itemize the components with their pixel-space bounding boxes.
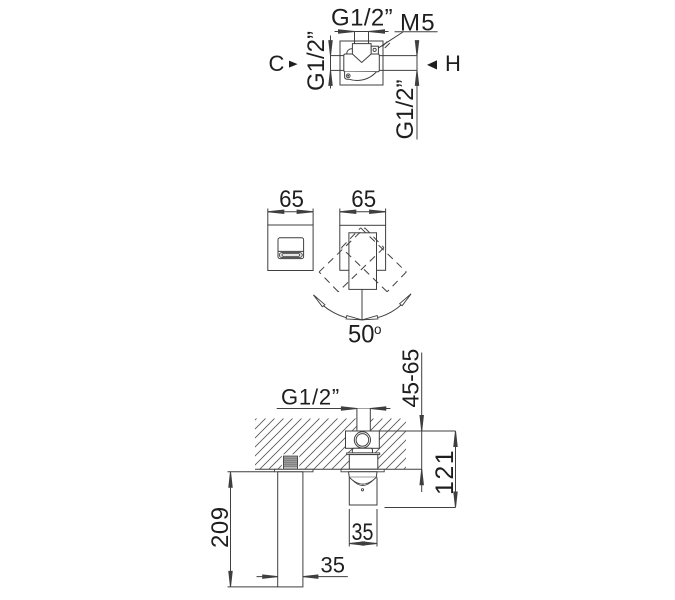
dimension line G1/2 top with arrows (335, 30, 389, 33)
supply pipe into wall (357, 409, 370, 432)
dimension G1/2 right vertical (415, 41, 418, 140)
screw M5 circle (373, 48, 376, 51)
svg-text:50: 50 (348, 321, 374, 349)
arc arrowheads (314, 294, 412, 320)
svg-text:M5: M5 (400, 10, 436, 37)
valve body rect (344, 54, 380, 72)
handle body (349, 477, 377, 505)
lever base plate bottom arc (345, 72, 377, 81)
wall plate front view (spout) (268, 225, 313, 271)
swing arc 50deg (314, 294, 412, 320)
inlet pipe top (355, 32, 369, 45)
right supply pipe H (379, 56, 417, 71)
handle screw dot (361, 489, 363, 491)
dimension 35 (handle) (349, 509, 377, 547)
dashed rotated handle left (319, 228, 384, 292)
svg-text:H: H (445, 51, 461, 76)
spout wall plate (274, 469, 313, 472)
wall plate front view (handle) (340, 225, 386, 270)
leader line M5 (376, 32, 437, 50)
svg-text:o: o (374, 322, 382, 337)
arrow C (solid triangle) (289, 61, 298, 68)
wall hatch band (255, 419, 406, 470)
outer square (mounting box) (340, 41, 383, 85)
svg-text:35: 35 (321, 553, 345, 578)
svg-text:C: C (269, 51, 285, 76)
dimension line G1/2 bottom (277, 407, 391, 410)
valve shoulder (352, 448, 372, 453)
left shoulder arc (347, 49, 353, 54)
dimension 45-65 (420, 353, 423, 493)
handle front (vertical) (349, 233, 377, 290)
threaded spout connection (282, 454, 299, 469)
arrow H (solid triangle) (427, 60, 437, 69)
svg-text:G1/2”: G1/2” (281, 385, 340, 410)
svg-text:G1/2”: G1/2” (303, 31, 330, 91)
valve cartridge circle (354, 432, 370, 448)
screw bottom-left circle (346, 74, 350, 78)
svg-text:209: 209 (207, 506, 234, 548)
left supply pipe C (331, 56, 344, 71)
spout tube (278, 472, 303, 587)
escutcheon flange (347, 453, 380, 455)
svg-text:65: 65 (279, 185, 304, 212)
dimension 35 (spout) (257, 575, 348, 578)
svg-text:121: 121 (431, 449, 459, 495)
handle neck (349, 472, 378, 478)
escutcheon body (349, 455, 378, 470)
dashed rotated handle right (341, 228, 406, 292)
svg-text:G1/2”: G1/2” (331, 5, 393, 32)
spout front (278, 238, 304, 259)
dimension G1/2 left vertical (329, 36, 332, 89)
wall finished surface line (255, 468, 422, 470)
svg-text:G1/2”: G1/2” (392, 79, 419, 139)
handle centerline (361, 289, 363, 320)
svg-text:45-65: 45-65 (397, 349, 423, 408)
cartridge shield with V notch (352, 44, 371, 63)
screw plate top-right (371, 46, 378, 54)
svg-text:35: 35 (352, 518, 374, 545)
svg-text:65: 65 (351, 185, 376, 212)
aerator slot (279, 253, 302, 258)
handle dome arcs (349, 477, 376, 484)
embedded valve block (346, 431, 380, 448)
dimension 209 (228, 472, 278, 587)
valve wall plate (341, 469, 384, 472)
dimension 121 (379, 431, 457, 508)
